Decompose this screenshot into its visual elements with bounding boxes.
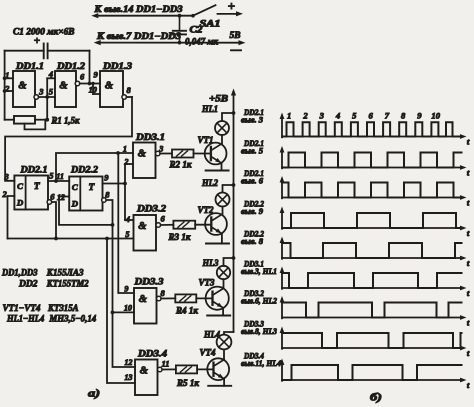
wire pin2 stub	[5, 90, 13, 92]
svg-text:2: 2	[302, 110, 308, 120]
wire emitter VT1	[221, 163, 223, 170]
gate DD3.3	[134, 288, 157, 324]
resistor R2_1к	[172, 150, 194, 158]
waveform DD3.3 pin 8 HL3 with axis	[281, 332, 283, 349]
svg-text:R2 1к: R2 1к	[168, 160, 191, 170]
wire DD1.3 output clock	[127, 96, 133, 98]
wire R1 bottom loop	[25, 120, 46, 130]
svg-text:DD1.3: DD1.3	[102, 61, 133, 71]
svg-text:DD3.4: DD3.4	[137, 348, 168, 358]
wire R1 to gate node	[46, 97, 48, 120]
svg-text:выв. 5: выв. 5	[241, 147, 263, 156]
lamp HL4	[217, 335, 232, 350]
wire Q2: DD2.2 pin9 to DD3.1 pin2 / DD3.2 pin4	[103, 183, 126, 185]
svg-text:КТ315А: КТ315А	[47, 304, 78, 314]
svg-text:VT3: VT3	[199, 277, 215, 287]
svg-text:R3 1к: R3 1к	[167, 232, 190, 242]
svg-text:3: 3	[38, 86, 44, 96]
flip-flop DD2.1	[14, 176, 48, 210]
svg-text:выв. 8: выв. 8	[241, 237, 263, 246]
flip-flop DD2.2	[69, 177, 102, 211]
svg-text:C: C	[72, 182, 78, 192]
svg-text:12: 12	[124, 358, 132, 367]
svg-text:HL4: HL4	[203, 329, 220, 339]
svg-text:+: +	[34, 35, 40, 47]
svg-text:11: 11	[56, 172, 64, 181]
svg-text:5: 5	[49, 171, 54, 181]
svg-text:КТ155ТМ2: КТ155ТМ2	[46, 280, 89, 290]
wire collector VT1 to lamp	[221, 135, 223, 144]
svg-text:а): а)	[88, 389, 100, 400]
svg-text:DD2.2: DD2.2	[70, 164, 99, 174]
svg-text:5В: 5В	[230, 30, 241, 40]
svg-text:8: 8	[401, 110, 406, 120]
wire emitter VT3	[222, 308, 224, 316]
wire DD1.1 out to DD1.2 in	[39, 96, 55, 98]
svg-text:&: &	[139, 294, 148, 305]
wire DD3.3 out to R4	[161, 297, 175, 299]
svg-text:&: &	[18, 81, 27, 92]
transistor VT4	[207, 358, 229, 380]
wire emitter VT4	[223, 379, 225, 386]
svg-text:4: 4	[48, 69, 53, 79]
svg-text:выв. 9: выв. 9	[241, 207, 263, 216]
svg-text:3: 3	[158, 145, 163, 154]
svg-text:HL3: HL3	[202, 258, 219, 268]
svg-text:4: 4	[335, 110, 341, 120]
svg-text:VT1−VT4: VT1−VT4	[3, 304, 41, 314]
svg-text:DD3.2: DD3.2	[136, 203, 167, 213]
gate DD3.1	[133, 143, 156, 179]
svg-text:1: 1	[5, 71, 9, 80]
svg-text:К выв.14 DD1−DD3: К выв.14 DD1−DD3	[93, 4, 183, 14]
svg-text:DD2.1: DD2.1	[19, 164, 47, 174]
svg-text:HL1: HL1	[201, 104, 218, 114]
svg-text:К155ЛА3: К155ЛА3	[46, 268, 84, 278]
waveform DD2.1 pin 3 (clock) with axis	[281, 118, 283, 138]
svg-text:DD1,DD3: DD1,DD3	[1, 268, 38, 278]
waveform DD2.1 pin 6 with axis	[281, 181, 283, 198]
gate DD1.3	[100, 71, 123, 107]
svg-text:3: 3	[4, 171, 10, 181]
svg-text:11: 11	[162, 359, 170, 369]
svg-text:МН3,5−0,14: МН3,5−0,14	[48, 314, 96, 324]
waveform DD2.1 pin 5 with axis	[281, 151, 283, 168]
waveform DD3.2 pin 6 HL2 with axis	[281, 301, 283, 318]
svg-text:&: &	[105, 81, 114, 92]
svg-text:9: 9	[124, 284, 128, 293]
svg-text:10: 10	[431, 110, 440, 120]
transistor VT1	[205, 143, 227, 165]
svg-text:5: 5	[352, 110, 357, 120]
svg-text:12: 12	[57, 193, 65, 202]
svg-text:б): б)	[370, 393, 382, 404]
svg-text:5: 5	[49, 86, 54, 96]
gate DD1.2	[55, 71, 76, 107]
svg-text:С2: С2	[190, 25, 204, 35]
svg-text:VT1: VT1	[198, 135, 214, 145]
wire DD1.2 out to DD1.3 in	[80, 83, 100, 85]
svg-text:HL2: HL2	[201, 178, 218, 188]
svg-text:VT2: VT2	[198, 205, 214, 215]
svg-text:выв.3, HL1: выв.3, HL1	[241, 267, 277, 276]
svg-text:3: 3	[319, 110, 325, 120]
svg-text:DD3.3: DD3.3	[133, 276, 164, 286]
svg-text:HL1−HL4: HL1−HL4	[6, 314, 44, 324]
wire emitter VT2	[221, 234, 223, 244]
wire R3 to VT2 base	[195, 224, 211, 226]
wire minus rail to pin 7 DD1-DD3	[94, 40, 101, 45]
wire lamp HL2 to +5V rail	[223, 185, 234, 193]
wire lamp HL4 to +5V rail	[224, 332, 234, 335]
svg-text:R1 1,5к: R1 1,5к	[51, 115, 80, 125]
svg-text:выв.11, HL4: выв.11, HL4	[241, 359, 281, 368]
svg-text:VT4: VT4	[200, 348, 216, 358]
wire R5 to VT4 base	[197, 368, 212, 370]
waveform DD2.2 pin 8 with axis	[281, 242, 283, 259]
wire DD3.1 out to R2	[160, 153, 172, 155]
resistor R5_1к	[176, 365, 197, 373]
svg-text:выв.6, HL2: выв.6, HL2	[241, 297, 277, 306]
svg-text:10: 10	[124, 303, 132, 312]
svg-text:0,047 мк: 0,047 мк	[185, 37, 218, 47]
lamp HL2	[216, 193, 230, 207]
wire collector VT2 to lamp	[222, 207, 224, 215]
svg-text:DD3.1: DD3.1	[135, 132, 165, 142]
waveform DD3.1 pin 3 HL1 with axis	[281, 272, 283, 289]
wire C1 left / input node vertical	[4, 51, 6, 120]
svg-text:выв. 6: выв. 6	[241, 177, 264, 186]
gate DD3.4	[135, 360, 158, 396]
wire collector VT4 to lamp	[223, 349, 225, 359]
svg-text:С1 2000 мк×6В: С1 2000 мк×6В	[13, 27, 75, 37]
resistor R4_1к	[175, 294, 196, 302]
wire NQ1: DD2.1 pin6 feedback and bottom bus to DD3.2 pin5 / DD3.4 pin13	[52, 202, 56, 239]
waveform DD2.2 pin 9 with axis	[281, 212, 283, 229]
wire DD3.2 out to R3	[161, 224, 174, 226]
wire collector VT3 to lamp	[223, 279, 225, 288]
svg-text:&: &	[59, 81, 68, 92]
svg-text:D: D	[71, 198, 79, 208]
svg-text:4: 4	[125, 215, 130, 224]
svg-text:R4 1к: R4 1к	[175, 306, 198, 316]
transistor VT3	[206, 287, 229, 310]
svg-text:13: 13	[124, 373, 132, 382]
svg-text:D: D	[16, 197, 24, 207]
svg-text:10: 10	[89, 86, 97, 95]
waveform DD3.4 pin 11 HL4 with axis	[281, 364, 283, 381]
wire pin10 stub	[92, 84, 94, 95]
svg-text:+5В: +5В	[209, 94, 228, 104]
svg-text:9: 9	[104, 172, 109, 182]
capacitor C2	[179, 16, 181, 31]
gate DD3.2	[134, 215, 157, 251]
+5V supply rail	[233, 94, 235, 332]
svg-text:R5 1к: R5 1к	[176, 378, 199, 388]
svg-text:выв. 3: выв. 3	[241, 116, 263, 125]
resistor R3_1к	[173, 221, 195, 229]
svg-text:+: +	[228, 0, 235, 14]
lamp HL1	[215, 121, 229, 135]
svg-text:DD1.1: DD1.1	[15, 61, 44, 71]
resistor R1	[14, 116, 35, 124]
capacitor C1	[5, 50, 44, 52]
wire C1 right to DD1.2 output node	[89, 51, 91, 84]
svg-text:&: &	[140, 365, 149, 376]
svg-text:2: 2	[123, 157, 128, 166]
svg-text:6: 6	[368, 110, 373, 120]
wire R2 to VT1 base	[194, 153, 211, 155]
gate DD1.1	[13, 71, 35, 107]
svg-text:&: &	[138, 221, 147, 232]
wire R4 to VT3 base	[196, 297, 211, 299]
minus terminal label	[231, 49, 241, 51]
switch SA1	[191, 14, 195, 18]
svg-text:5: 5	[125, 230, 129, 239]
svg-text:SA1: SA1	[200, 18, 221, 28]
svg-text:2: 2	[4, 85, 9, 94]
svg-text:К выв.7 DD1−DD3: К выв.7 DD1−DD3	[96, 31, 182, 41]
svg-text:DD1.2: DD1.2	[56, 61, 86, 71]
wire NQ2: DD2.2 pin8 feedback and bus to DD3.3 pin10 / DD3.4 pin12	[106, 200, 112, 225]
wire DD3.4 out to R5	[162, 368, 176, 370]
wire +5V rail to pin 14 DD1-DD3 (left arrow)	[91, 13, 98, 18]
svg-text:7: 7	[385, 110, 390, 120]
svg-text:1: 1	[123, 145, 127, 154]
svg-text:1: 1	[287, 110, 291, 120]
svg-text:&: &	[138, 148, 147, 159]
lamp HL3	[217, 266, 230, 279]
svg-text:C: C	[17, 181, 23, 191]
wire lamp HL1 to +5V rail	[222, 113, 234, 121]
wire Q1: DD2.1 pin5 to DD2.2 pin11 and DD3.1 pin1 / DD3.3 pin9	[48, 180, 69, 182]
transistor VT2	[205, 213, 227, 235]
svg-text:9: 9	[417, 110, 422, 120]
wire pin1 stub	[5, 77, 13, 79]
svg-text:DD2: DD2	[18, 280, 38, 290]
svg-text:выв.8, HL3: выв.8, HL3	[241, 327, 277, 336]
wire lamp HL3 to +5V rail	[224, 258, 234, 266]
